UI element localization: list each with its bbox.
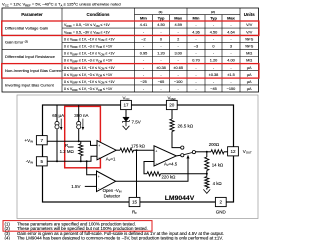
svg-text:GND: GND: [216, 210, 227, 215]
svg-text:Units: Units: [244, 12, 256, 17]
svg-text:−3: −3: [194, 45, 198, 49]
svg-text:14 kΩ: 14 kΩ: [212, 163, 224, 168]
svg-text:−65: −65: [158, 80, 165, 84]
svg-text:0: 0: [160, 37, 162, 41]
svg-text:Parameter: Parameter: [21, 12, 43, 17]
svg-text:20: 20: [169, 103, 175, 108]
junction dot 65uA to -VIN line: [56, 160, 58, 162]
svg-text:7: 7: [41, 138, 44, 143]
svg-text:V/V: V/V: [246, 30, 253, 34]
svg-text:4 kΩ: 4 kΩ: [213, 181, 223, 186]
svg-text:µA: µA: [247, 87, 252, 91]
svg-text:1.20: 1.20: [157, 52, 164, 56]
current source 380nA: [78, 105, 80, 141]
current source 65uA: [56, 105, 58, 161]
electrical characteristics table: [2, 8, 259, 92]
svg-text:MΩ: MΩ: [246, 59, 252, 63]
wire 220k to divider tap: [161, 173, 207, 175]
svg-text:0 ≤ VDIFF​ ≤ 1V, −3 ≤ VCM​ ≤ +: 0 ≤ VDIFF​ ≤ 1V, −3 ≤ VCM​ ≤ +1V: [64, 73, 113, 78]
svg-text:4.36: 4.36: [192, 30, 199, 34]
svg-text:%FS: %FS: [245, 37, 254, 41]
resistor 175 kOhm: [120, 148, 134, 152]
resistor 4 kOhm: [206, 171, 208, 177]
wire amp2 inverting input to feedback: [144, 162, 154, 174]
wire down to RF pin 15: [135, 150, 137, 198]
pin 12 VOUT: [228, 147, 239, 156]
wire 26.5k to switch contact A: [172, 132, 181, 148]
pin 20 VREF: [166, 100, 177, 109]
resistor 26.5 kOhm: [170, 119, 174, 131]
wire detector output to switch control arrow: [116, 158, 188, 182]
wire zener from VCC pin 17: [125, 109, 127, 117]
svg-text:17: 17: [123, 103, 129, 108]
svg-text:Detector: Detector: [104, 194, 121, 199]
svg-text:Max: Max: [227, 16, 236, 21]
svg-text:VCC = 12V, VREF = 5V, −40°C ≤: VCC = 12V, VREF = 5V, −40°C ≤ TA ≤ 125°C…: [2, 2, 121, 8]
svg-text:(4): (4): [5, 236, 11, 240]
svg-text:MΩ: MΩ: [246, 52, 252, 56]
wire VREF pin20 down to 26.5k resistor: [171, 109, 173, 119]
svg-text:AV=4.5: AV=4.5: [164, 161, 178, 167]
svg-text:4.00: 4.00: [227, 59, 234, 63]
pin 17 VCC: [121, 100, 132, 109]
svg-text:µA: µA: [247, 66, 252, 70]
svg-text:−100: −100: [174, 80, 183, 84]
svg-text:0.95: 0.95: [140, 52, 147, 56]
svg-text:+: +: [155, 150, 157, 154]
svg-text:(1): (1): [159, 10, 163, 14]
resistor 200 Ohm: [211, 150, 224, 154]
footnotes red box: [3, 221, 152, 232]
svg-text:Typ: Typ: [158, 16, 165, 21]
svg-text:±0.38: ±0.38: [209, 73, 219, 77]
switch contact B: [181, 154, 184, 157]
svg-text:RF: RF: [132, 210, 137, 216]
svg-text:µA: µA: [247, 73, 252, 77]
wire switch pole to 200 ohm: [196, 151, 212, 153]
switch contact A: [181, 146, 184, 149]
figure frame: [17, 95, 258, 219]
svg-text:+VIN: +VIN: [25, 138, 33, 144]
red annotation box around input bias current sources and RDIFF: [65, 106, 101, 167]
svg-text:−150: −150: [227, 87, 236, 91]
svg-text:+: +: [98, 144, 100, 148]
resistor 14 kOhm: [206, 152, 208, 157]
svg-text:VDIFF​ = 0.5, −3V ≤ VCM​ ≤ +1V: VDIFF​ = 0.5, −3V ≤ VCM​ ≤ +1V: [64, 30, 110, 35]
svg-text:VREF: VREF: [167, 96, 176, 102]
svg-text:±1.5: ±1.5: [227, 73, 234, 77]
op-amp buffer AV=1: [97, 141, 116, 160]
svg-text:%FS: %FS: [245, 45, 254, 49]
svg-text:1.2 MΩ: 1.2 MΩ: [60, 149, 75, 154]
svg-text:4.41: 4.41: [140, 23, 147, 27]
svg-text:µA: µA: [247, 80, 252, 84]
svg-text:380 nA: 380 nA: [74, 113, 88, 118]
IC package outline LM9044V: [43, 105, 234, 202]
resistor 220 kOhm feedback: [147, 172, 161, 176]
node RF junction: [136, 149, 138, 151]
switch lever: [184, 153, 192, 155]
svg-text:175 kΩ: 175 kΩ: [131, 143, 146, 148]
svg-text:0 ≤ VDIFF​ ≤ 1V, −1V ≤ VCM​ ≤: 0 ≤ VDIFF​ ≤ 1V, −1V ≤ VCM​ ≤ +1V: [64, 66, 115, 71]
svg-text:−25: −25: [140, 80, 147, 84]
svg-text:0 ≤ VDIFF​ ≤ 1V, −1V ≤ VCM​ ≤: 0 ≤ VDIFF​ ≤ 1V, −1V ≤ VCM​ ≤ +1V: [64, 52, 115, 57]
svg-text:15: 15: [132, 200, 138, 205]
switch pole C: [192, 151, 195, 154]
svg-text:3: 3: [230, 45, 232, 49]
svg-text:+: +: [98, 175, 100, 179]
svg-text:±0.65: ±0.65: [173, 66, 183, 70]
svg-text:Max: Max: [174, 16, 183, 21]
junction dot 380nA to +VIN line: [78, 140, 80, 142]
svg-text:LM9044V: LM9044V: [165, 195, 195, 202]
svg-text:26.5 kΩ: 26.5 kΩ: [178, 124, 194, 129]
svg-text:VDIFF​ = 0.5, −1V ≤ VCM​ ≤ +1V: VDIFF​ = 0.5, −1V ≤ VCM​ ≤ +1V: [64, 23, 110, 28]
svg-text:7.5V: 7.5V: [132, 119, 141, 124]
wire 200 ohm to VOUT pin 12: [224, 151, 228, 153]
svg-text:4.50: 4.50: [210, 30, 217, 34]
op-amp AV=4.5: [154, 146, 176, 166]
red annotation box differential voltage gain rows: [2, 21, 259, 36]
svg-text:200Ω: 200Ω: [209, 142, 220, 147]
svg-text:65 µA: 65 µA: [52, 113, 64, 118]
wire -VIN to buffer inverting input: [47, 156, 97, 161]
svg-text:-VIN: -VIN: [26, 159, 33, 165]
red annotation box non-inverting input bias current rows: [2, 64, 259, 79]
svg-text:AV=1: AV=1: [106, 157, 116, 163]
comparator open -VIN detector: [97, 171, 116, 192]
svg-text:3.00: 3.00: [174, 52, 181, 56]
svg-text:2: 2: [220, 200, 223, 205]
svg-text:0 ≤ VDIFF​ ≤ 1V, −1V ≤ VCM​ ≤: 0 ≤ VDIFF​ ≤ 1V, −1V ≤ VCM​ ≤ +1V: [64, 80, 115, 85]
svg-text:4.64: 4.64: [227, 30, 235, 34]
wire branch to open-input detector: [86, 160, 88, 162]
svg-text:4.59: 4.59: [174, 23, 181, 27]
svg-text:0: 0: [212, 45, 214, 49]
svg-text:Min: Min: [193, 16, 200, 21]
svg-text:(2): (2): [211, 10, 215, 14]
svg-text:0 ≤ VDIFF​ ≤ 1V, −1V ≤ VCM​ ≤: 0 ≤ VDIFF​ ≤ 1V, −1V ≤ VCM​ ≤ +1V: [64, 37, 115, 42]
svg-text:12: 12: [230, 149, 236, 154]
svg-text:220 kΩ: 220 kΩ: [162, 175, 177, 180]
zener diode 7.5V: [123, 117, 129, 121]
svg-text:Min: Min: [140, 16, 147, 21]
wire 175k to amp2: [134, 149, 155, 151]
svg-text:Typ: Typ: [210, 16, 217, 21]
pin 2 GND: [215, 197, 226, 206]
svg-text:VCC: VCC: [122, 96, 129, 102]
svg-text:2: 2: [177, 37, 179, 41]
svg-text:0 ≤ VDIFF​ ≤ 1V, −3 ≤ VCM​ ≤ +: 0 ≤ VDIFF​ ≤ 1V, −3 ≤ VCM​ ≤ +1V: [64, 45, 113, 50]
svg-text:5: 5: [41, 159, 44, 164]
svg-text:Differential Input Resistance: Differential Input Resistance: [5, 54, 56, 59]
svg-text:4.50: 4.50: [157, 23, 164, 27]
svg-text:Conditions: Conditions: [87, 12, 110, 17]
svg-text:Non-Inverting Input Bias Curre: Non-Inverting Input Bias Current: [5, 68, 63, 73]
svg-text:1.20: 1.20: [210, 59, 217, 63]
svg-text:Inverting Input Bias Current: Inverting Input Bias Current: [5, 82, 55, 87]
wire buffer output to 175k: [116, 149, 120, 151]
svg-text:V/V: V/V: [246, 23, 253, 27]
pin 7 +VIN: [36, 136, 47, 145]
svg-text:0 ≤ VDIFF​ ≤ 1V, −3 ≤ VCM​ ≤ +: 0 ≤ VDIFF​ ≤ 1V, −3 ≤ VCM​ ≤ +1V: [64, 87, 113, 92]
svg-text:−2: −2: [141, 37, 145, 41]
wire +VIN to buffer: [47, 141, 97, 145]
pin 5 -VIN: [36, 157, 47, 166]
svg-text:0.70: 0.70: [192, 59, 199, 63]
svg-text:−45: −45: [210, 87, 217, 91]
wire amp2 output to switch contact B: [176, 154, 180, 157]
svg-text:0 ≤ VDIFF​ ≤ 1V, −3 ≤ VCM​ ≤ +: 0 ≤ VDIFF​ ≤ 1V, −3 ≤ VCM​ ≤ +1V: [64, 59, 113, 64]
svg-text:Differential Voltage Gain: Differential Voltage Gain: [5, 26, 48, 31]
svg-text:1.5V: 1.5V: [71, 184, 80, 189]
pin 15 RF: [129, 197, 140, 206]
svg-text:±0.38: ±0.38: [156, 66, 166, 70]
ground arrow below 4k: [203, 189, 210, 193]
svg-text:The LM9044 has been designed t: The LM9044 has been designed to common-m…: [17, 236, 223, 240]
svg-text:VOUT: VOUT: [243, 149, 252, 155]
resistor RDIFF 1.2 MOhm: [80, 141, 82, 144]
ground arrow below zener: [123, 126, 130, 130]
